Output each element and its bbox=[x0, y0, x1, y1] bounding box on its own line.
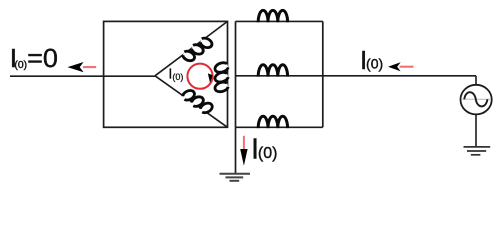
winding L3 (delta bottom side coil) bbox=[181, 88, 213, 116]
current arrow (neutral, pointing down) bbox=[240, 136, 247, 166]
current arrow (right, pointing left) bbox=[388, 62, 414, 71]
wire: source bottom lead bbox=[475, 115, 477, 147]
ground (neutral) bbox=[220, 174, 251, 181]
node: secondary left rail bbox=[235, 21, 237, 127]
wire: source top lead bbox=[475, 76, 477, 85]
wire: neutral to ground bbox=[235, 127, 237, 173]
svg-text:I(0): I(0) bbox=[168, 66, 183, 83]
transformer box (primary delta enclosure) bbox=[104, 21, 228, 127]
AC source V1 bbox=[461, 85, 492, 115]
wire: secondary bottom branch bbox=[236, 126, 323, 128]
inductor L6 (bottom branch) bbox=[258, 116, 287, 128]
wire: secondary top branch bbox=[236, 20, 323, 22]
svg-text:I(0)=0: I(0)=0 bbox=[10, 43, 58, 73]
circulating current arrowhead bbox=[208, 73, 213, 83]
inductor L4 (top branch) bbox=[258, 10, 287, 22]
wire: main left wire to delta apex bbox=[10, 75, 155, 77]
node: secondary right rail bbox=[322, 21, 324, 127]
wire: secondary middle branch bbox=[236, 75, 323, 77]
winding L2 (delta right side coil) bbox=[215, 63, 228, 92]
inductor L5 (middle branch) bbox=[258, 65, 287, 77]
winding L1 (delta top side coil) bbox=[181, 35, 213, 63]
AC source axis line bbox=[462, 98, 490, 100]
wire: delta top edge bbox=[155, 21, 228, 75]
svg-text:I(0): I(0) bbox=[360, 45, 383, 75]
circulating current loop (red circle) bbox=[187, 64, 212, 89]
ground (source) bbox=[464, 147, 491, 155]
wire: main right wire to source bbox=[323, 75, 476, 77]
svg-text:I(0): I(0) bbox=[251, 134, 277, 166]
wire: delta bottom edge bbox=[155, 76, 228, 128]
AC source sine wave bbox=[464, 92, 487, 106]
current arrow (left, pointing left) bbox=[68, 62, 97, 72]
